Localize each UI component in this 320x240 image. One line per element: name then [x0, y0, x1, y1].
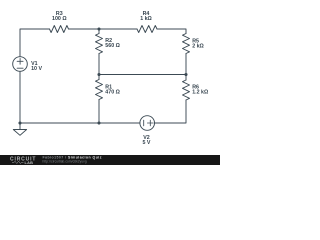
- junction top middle: [97, 27, 100, 30]
- svg-text:470 Ω: 470 Ω: [105, 90, 120, 96]
- svg-text:http://circuitlab.com/c6k2yuvg: http://circuitlab.com/c6k2yuvg: [43, 159, 87, 163]
- svg-text:560 Ω: 560 Ω: [105, 43, 120, 49]
- voltage source V1: [13, 57, 28, 72]
- resistor R2: [96, 34, 103, 54]
- junction bottom middle: [97, 121, 100, 124]
- wire mid-right junction to R6 top: [185, 75, 187, 81]
- junction ground: [18, 121, 21, 124]
- wire R6 bottom to bottom-right corner to V2 right: [155, 100, 187, 123]
- resistor R6: [183, 80, 190, 100]
- wire R2 bottom to middle junction: [98, 54, 100, 75]
- wire R3 right to R4 left: [69, 28, 138, 30]
- svg-text:5 V: 5 V: [143, 140, 151, 146]
- logo zigzag: [12, 161, 24, 163]
- wire top junction to R2 top: [98, 29, 100, 34]
- svg-text:10 V: 10 V: [31, 66, 42, 72]
- svg-text:1 kΩ: 1 kΩ: [140, 16, 152, 22]
- svg-text:100 Ω: 100 Ω: [52, 16, 67, 22]
- wire bottom: ground junction to V2 left: [20, 122, 140, 124]
- wire middle horizontal: [99, 74, 186, 76]
- svg-text:2 kΩ: 2 kΩ: [192, 43, 204, 49]
- wire R5 bottom to mid-right junction: [185, 54, 187, 75]
- junction middle: [97, 73, 100, 76]
- wire middle junction to R1 top: [98, 75, 100, 80]
- V1 minus sign: [17, 67, 23, 69]
- wire V1 bottom to ground junction: [19, 71, 21, 123]
- wire R4 right to top-right corner down to R5: [157, 29, 186, 34]
- svg-text:LAB: LAB: [25, 161, 34, 165]
- wire R1 bottom to bottom wire: [98, 100, 100, 124]
- V2 plus sign: [147, 120, 153, 126]
- V1 plus sign: [17, 58, 23, 64]
- resistor R3: [50, 26, 69, 33]
- voltage source V2: [140, 116, 155, 131]
- footer bar: [0, 155, 220, 165]
- ground: [13, 123, 26, 135]
- V2 minus sign: [143, 120, 145, 126]
- resistor R4: [137, 26, 157, 33]
- wire top-left: V1 top to R3 left: [20, 29, 50, 57]
- svg-text:1.2 kΩ: 1.2 kΩ: [192, 90, 209, 96]
- resistor R5: [183, 34, 190, 54]
- junction mid-right: [184, 73, 187, 76]
- resistor R1: [96, 80, 103, 100]
